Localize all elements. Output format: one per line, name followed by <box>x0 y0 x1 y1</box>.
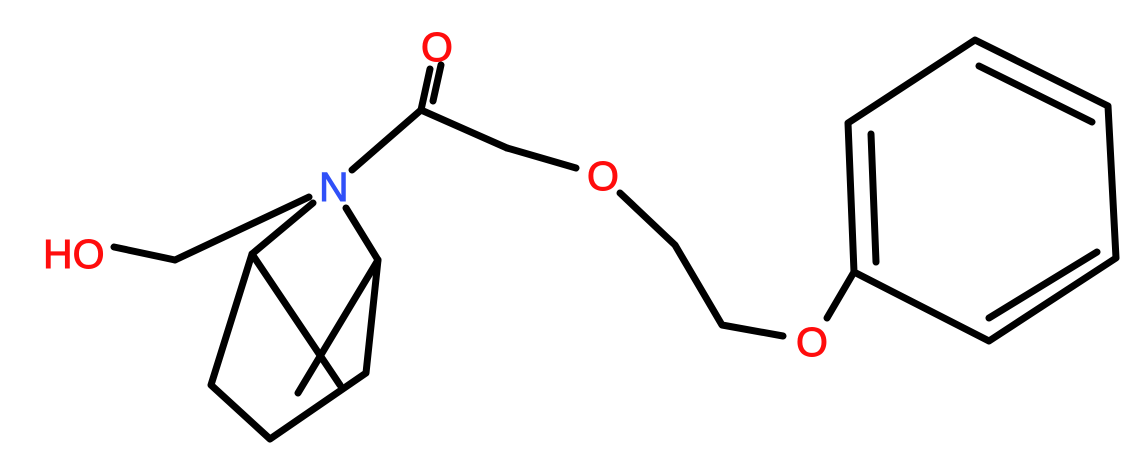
wire ring C1-C2-C3-C4-C5 <box>211 254 378 439</box>
benzene inner double bond bottom-right edge <box>989 252 1097 318</box>
wire HO label to carbinol carbon <box>114 247 175 260</box>
wire N to bridgehead C5 <box>346 208 378 260</box>
wire carbinol carbon to N (long diagonal) <box>175 197 309 260</box>
svg-text:O: O <box>796 319 828 365</box>
wire O1 to Ca, Ca to Cb, Cb to ether O2 label <box>620 193 783 336</box>
wire O2 to benzene lower-left vertex <box>827 272 854 318</box>
wire V1 to ether O1 label <box>507 148 576 168</box>
benzene ring outline <box>848 40 1116 341</box>
svg-text:HO: HO <box>43 231 105 277</box>
wire carbonyl carbon to CH2 V1 <box>421 110 507 148</box>
wire bridge from C1 (crossing) <box>252 254 340 385</box>
benzene inner double bond top-right edge <box>979 66 1092 122</box>
wire N to carbonyl carbon <box>352 110 421 170</box>
wire bridge from C5 (crossing) <box>298 260 378 393</box>
benzene inner double bond left edge <box>871 134 876 262</box>
carbonyl C=O double bond <box>421 69 430 110</box>
svg-text:N: N <box>319 164 349 210</box>
svg-text:O: O <box>421 24 453 70</box>
svg-text:O: O <box>587 153 619 199</box>
wire N to bridgehead C1 <box>252 203 313 254</box>
